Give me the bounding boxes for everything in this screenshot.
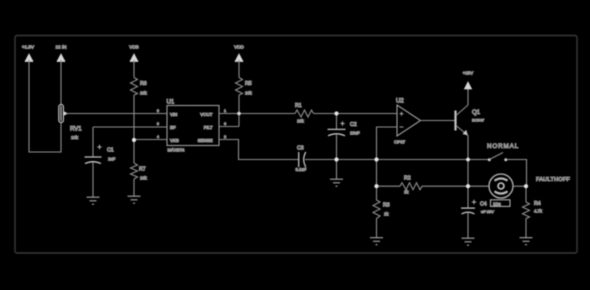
- capacitor C1: [85, 127, 116, 197]
- resistor R5: [236, 78, 253, 96]
- svg-text:12 IN: 12 IN: [56, 45, 67, 50]
- svg-text:R2: R2: [404, 176, 411, 182]
- svg-text:10u: 10u: [493, 202, 501, 207]
- node feedback/ground row: [374, 157, 378, 161]
- svg-text:FAULTHOFF: FAULTHOFF: [536, 177, 571, 183]
- svg-text:1uF: 1uF: [108, 157, 116, 162]
- svg-text:U1: U1: [167, 100, 175, 106]
- svg-text:BC547: BC547: [472, 118, 485, 123]
- svg-text:VOUT: VOUT: [200, 112, 213, 117]
- svg-text:C1: C1: [107, 148, 114, 154]
- svg-text:+15V: +15V: [463, 71, 473, 76]
- svg-text:SENSE: SENSE: [198, 138, 213, 143]
- node VOUT/R5/FILT: [237, 112, 241, 116]
- svg-text:C2: C2: [350, 122, 357, 128]
- svg-text:2: 2: [224, 135, 226, 139]
- svg-text:uF 25V: uF 25V: [481, 209, 494, 214]
- resistor R4: [523, 186, 543, 237]
- wire +1.5V down/over to RV1 bottom: [29, 60, 61, 152]
- svg-text:Q1: Q1: [472, 110, 481, 116]
- wire lower row to R2: [377, 185, 401, 187]
- svg-text:10uF: 10uF: [350, 131, 360, 136]
- svg-text:VDB: VDB: [129, 45, 138, 50]
- wire U1 SENSE down to lower row: [219, 140, 299, 160]
- wire opamp output to Q1 base: [421, 120, 455, 122]
- svg-text:1: 1: [224, 109, 226, 113]
- resistor R1: [295, 103, 314, 124]
- wire opamp inverting input: [377, 127, 398, 186]
- wire R6 to junction: [133, 95, 135, 163]
- svg-text:C3: C3: [297, 146, 304, 152]
- wire R7 to ground: [133, 179, 135, 196]
- ground C2: [330, 179, 343, 186]
- svg-text:R6: R6: [140, 81, 147, 87]
- svg-text:EF: EF: [170, 125, 176, 130]
- ground R7: [128, 196, 141, 203]
- wire U1 FILT up to VOUT: [219, 126, 239, 128]
- buzzer LS1: [468, 174, 526, 198]
- wire C3 right to feedback column: [305, 159, 489, 161]
- node R6/R7/U1 pin3: [132, 138, 136, 142]
- svg-text:NORMAL: NORMAL: [487, 143, 519, 150]
- capacitor C3: [296, 146, 307, 173]
- svg-text:8: 8: [157, 109, 159, 113]
- svg-text:3: 3: [157, 122, 159, 126]
- svg-text:10k: 10k: [140, 91, 148, 96]
- capacitor C4: [461, 186, 510, 238]
- svg-text:10k: 10k: [140, 176, 148, 181]
- resistor R2: [400, 176, 422, 195]
- svg-text:R5: R5: [245, 81, 252, 87]
- wire Q1 collector up: [467, 88, 469, 105]
- power flag VDD: [234, 45, 244, 62]
- switch NORMAL: [487, 143, 519, 161]
- transistor Q1: [456, 105, 486, 136]
- svg-text:FILT: FILT: [204, 125, 213, 130]
- wire switch to fault node: [507, 160, 527, 187]
- svg-text:MAX874: MAX874: [168, 148, 185, 153]
- svg-text:R3: R3: [383, 203, 390, 209]
- svg-text:VKB: VKB: [170, 138, 179, 143]
- node buzzer/R4/switch/fault: [524, 184, 528, 188]
- resistor R3: [373, 186, 390, 237]
- node emitter/C4/buzzer: [466, 184, 470, 188]
- resistor R7: [131, 163, 148, 181]
- op-amp U2: [394, 99, 421, 145]
- power flag 12 IN: [56, 45, 67, 62]
- wire node to U1 pin3: [134, 139, 167, 141]
- wire U1 VOUT to R1: [219, 113, 295, 115]
- svg-text:10k: 10k: [297, 119, 305, 124]
- power flag VDB: [129, 45, 138, 62]
- ground C4: [462, 238, 475, 245]
- svg-text:4.7k: 4.7k: [534, 209, 543, 214]
- svg-text:0.1uF: 0.1uF: [296, 167, 307, 172]
- wire Q1 emitter down: [467, 136, 469, 187]
- svg-text:R4: R4: [534, 201, 541, 207]
- svg-text:R7: R7: [139, 167, 146, 173]
- svg-text:RV1: RV1: [70, 127, 82, 133]
- ground C1: [87, 197, 100, 204]
- node emitter/switch row: [466, 158, 470, 162]
- capacitor C2: [328, 114, 360, 180]
- svg-text:10k: 10k: [71, 135, 79, 140]
- svg-text:VIN: VIN: [170, 112, 177, 117]
- wire C1 top to U1 pin2: [93, 126, 167, 128]
- power flag +1.5V: [22, 45, 35, 62]
- resistor R6: [131, 78, 148, 96]
- ground R4: [520, 238, 533, 245]
- wire VDB to R6: [133, 60, 135, 78]
- svg-text:VDD: VDD: [234, 45, 244, 50]
- IC U1: [157, 100, 226, 153]
- trimmer RV1: [59, 105, 82, 141]
- node C2/ground row: [334, 157, 338, 161]
- power flag +15V: [463, 71, 473, 89]
- wire R5 to VOUT row and FILT stub: [238, 95, 240, 127]
- wire 12IN to RV1 top: [60, 60, 62, 105]
- svg-text:6: 6: [224, 122, 226, 126]
- svg-text:+1.5V: +1.5V: [22, 45, 35, 50]
- svg-text:U2: U2: [396, 99, 404, 105]
- wire R2 to C4 node: [422, 185, 468, 187]
- border frame: [15, 36, 577, 254]
- wire R1 to opamp +: [314, 113, 398, 115]
- wire RV1 wiper to U1 VIN: [66, 113, 167, 115]
- svg-text:10k: 10k: [245, 91, 253, 96]
- ground R3: [370, 238, 383, 245]
- svg-text:R1: R1: [295, 103, 302, 109]
- svg-text:4: 4: [157, 135, 159, 139]
- node R1/C2/opamp input: [334, 111, 338, 115]
- node feedback/R2/R3: [374, 184, 378, 188]
- wire VDD to R5: [238, 60, 240, 78]
- svg-text:OP07: OP07: [394, 140, 406, 145]
- svg-text:C4: C4: [480, 202, 487, 208]
